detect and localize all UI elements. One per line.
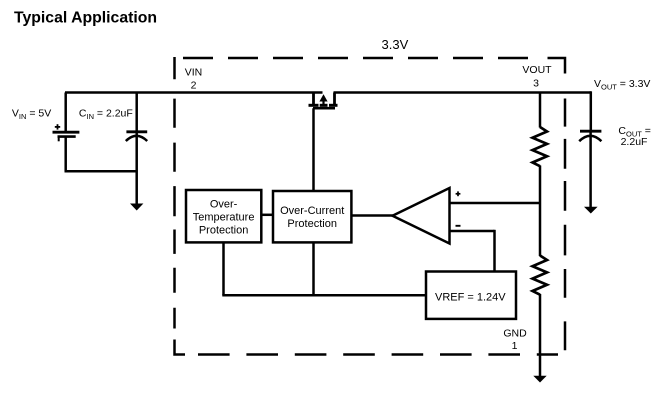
svg-text:Typical Application: Typical Application [14,10,157,27]
label COUT = 2.2uF [618,125,651,148]
wire top rail left (VIN rail) [65,91,323,94]
block over-temperature protection [186,190,261,242]
block over-current protection [273,191,351,242]
wire op-amp minus input to VREF [450,230,495,272]
wire VOUT rail to R1 [539,93,542,128]
svg-text:VIN: VIN [185,67,203,79]
pin VOUT 3 [522,64,552,90]
wire gate to over-current block [312,108,315,191]
svg-text:1: 1 [512,340,518,352]
ground at CIN [130,204,143,211]
wire protection blocks to VREF [222,242,426,295]
capacitor CIN [126,93,147,205]
pin GND 1 [503,328,527,352]
wire over-current to op-amp output [351,214,393,217]
battery V1 [53,93,80,172]
svg-text:VOUT: VOUT [522,64,552,76]
ground at GND pin [533,376,546,383]
svg-text:Protection: Protection [287,218,337,230]
svg-text:2.2uF: 2.2uF [621,136,648,148]
transistor pass PMOS [309,93,338,109]
svg-text:VIN = 5V: VIN = 5V [12,108,51,122]
wire op-amp plus input to divider tap [450,202,541,205]
wire VOUT rail corner to COUT [590,91,593,130]
svg-text:Temperature: Temperature [193,212,255,224]
IC boundary dashed box [175,57,566,355]
svg-text:Over-Current: Over-Current [280,205,344,217]
resistor R1 [533,127,548,166]
pin VIN 2 [185,67,203,92]
wire R1 to R2 (divider tap) [539,166,542,257]
wire R2 to ground [539,294,542,376]
svg-text:3.3V: 3.3V [382,37,409,52]
svg-text:Over-: Over- [210,199,238,211]
wire battery to CIN bottom [65,170,137,173]
resistor R2 [533,256,548,295]
wire between protection blocks [261,214,273,217]
svg-text:VREF = 1.24V: VREF = 1.24V [435,291,506,303]
op-amp U1 [393,188,461,244]
wire top rail right (VOUT rail) [334,91,592,94]
block VREF = 1.24V [426,272,516,319]
svg-text:2: 2 [191,80,197,92]
capacitor COUT [579,131,601,207]
svg-text:GND: GND [503,328,527,340]
svg-text:3: 3 [533,78,539,90]
svg-text:Protection: Protection [199,225,249,237]
ground at COUT [584,207,598,214]
